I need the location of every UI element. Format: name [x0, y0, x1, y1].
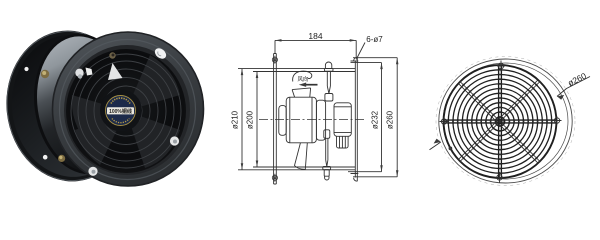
middle drawing texts	[230, 31, 394, 129]
bottom bolt	[496, 172, 504, 183]
hub	[100, 90, 142, 132]
grill	[443, 65, 557, 179]
grill wires	[71, 54, 181, 168]
motor left cap	[279, 106, 286, 136]
silver screw right	[170, 136, 179, 145]
duct tube outer/inner lines	[238, 69, 355, 170]
right bolt	[553, 117, 562, 125]
svg-text:100%铜线: 100%铜线	[109, 108, 132, 115]
front ring	[52, 32, 204, 187]
bottom bolt rod	[323, 130, 331, 180]
dim phi260	[396, 58, 398, 177]
top bolt rod	[324, 62, 333, 101]
white hole lower-left	[43, 155, 48, 160]
flange inner lip shadow	[25, 27, 143, 180]
fan blades hints	[72, 55, 180, 168]
flange top bolt	[272, 56, 277, 64]
bottom blade	[295, 143, 308, 169]
dim 184 right arrow	[350, 39, 357, 42]
junction box	[334, 103, 351, 137]
spoke weld knobs	[443, 65, 557, 179]
brass screw upper-left	[41, 70, 49, 78]
dim phi232	[381, 63, 383, 172]
top blade	[292, 88, 311, 97]
motor right housing	[316, 100, 325, 140]
dim phi200	[256, 72, 258, 168]
outer rim ellipse	[439, 59, 572, 183]
silver screw bottom	[88, 167, 97, 176]
rear flange outer ellipse	[0, 24, 141, 187]
svg-text:ø210: ø210	[230, 110, 239, 129]
flange bottom bolt	[272, 174, 277, 182]
svg-text:ø260: ø260	[566, 70, 588, 88]
dim 184 left arrow	[275, 39, 282, 42]
ext line right of 184	[355, 40, 357, 57]
svg-text:ø232: ø232	[370, 110, 379, 129]
svg-text:ø260: ø260	[386, 110, 395, 129]
bright metal clip	[86, 68, 93, 76]
motor body	[286, 97, 316, 143]
dim phi210	[241, 69, 243, 170]
cable gland	[337, 136, 349, 148]
wind direction arrow	[305, 84, 318, 86]
wind direction balloon	[293, 71, 312, 81]
hole lines	[351, 61, 359, 174]
grill dark area	[66, 49, 186, 173]
left flange plate	[274, 54, 277, 185]
guard clip above highlight	[109, 52, 115, 58]
silver screw at body/ring seam	[75, 69, 83, 77]
rear flange rim highlight	[0, 25, 140, 187]
small dot on bolt circle	[449, 147, 452, 150]
ext lines phi260	[353, 58, 397, 177]
body cylinder	[28, 30, 139, 178]
ext line left of 184	[274, 40, 276, 53]
brass screw lower-left	[58, 155, 65, 162]
dia 260 leader	[430, 77, 591, 150]
silver screw top of ring	[153, 46, 168, 61]
blade highlight wedge	[108, 63, 123, 80]
svg-text:6-ø7: 6-ø7	[366, 35, 383, 44]
right ring plate	[355, 57, 357, 181]
svg-text:风向: 风向	[298, 75, 309, 83]
dashed bolt circle	[436, 57, 575, 186]
leader 6-phi7	[356, 43, 365, 60]
dim 184 line	[275, 39, 356, 41]
radial spokes horizontal/vertical	[444, 65, 557, 178]
white hole upper-left	[24, 67, 28, 71]
inner rim ellipse	[443, 63, 568, 179]
svg-text:ø200: ø200	[246, 110, 255, 129]
radial spokes diagonal	[458, 80, 540, 164]
ext lines phi232	[348, 63, 382, 172]
svg-text:184: 184	[308, 31, 322, 41]
left bolt	[440, 118, 449, 126]
top bolt	[497, 61, 505, 72]
rear flange face	[5, 29, 138, 183]
center axis	[259, 119, 366, 121]
front view bolts	[440, 61, 562, 183]
